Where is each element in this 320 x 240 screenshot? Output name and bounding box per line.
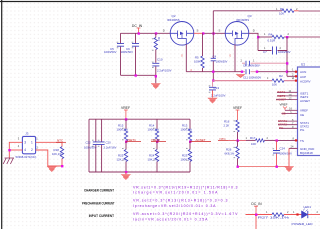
svg-text:ACN: ACN — [300, 70, 306, 74]
capacitor C7 — [258, 50, 287, 52]
resistor R25 — [125, 142, 127, 150]
capacitor C6 — [132, 44, 139, 47]
svg-text:100K,1%: 100K,1% — [181, 158, 193, 162]
svg-text:Icharge=VR.set1/20/0.01= 1.50A: Icharge=VR.set1/20/0.01= 1.50A — [133, 191, 218, 195]
svg-text:C10: C10 — [157, 58, 163, 62]
svg-text:3: 3 — [24, 140, 26, 144]
junction riser / ACDRV — [212, 79, 214, 81]
ground flag C11 (left wing) — [237, 75, 245, 78]
wire divider left edge — [88, 119, 90, 172]
pin 2 ACP stub — [287, 75, 298, 77]
svg-text:ACP: ACP — [300, 75, 306, 79]
wire GND_PAD drop — [288, 148, 290, 166]
svg-text:1: 1 — [31, 140, 33, 144]
junction ISET1 — [125, 141, 127, 143]
wire R5 riser — [202, 33, 204, 56]
svg-text:2.2uF/100V: 2.2uF/100V — [211, 93, 226, 97]
resistor R23 — [189, 142, 191, 150]
junction R18 gnd — [61, 165, 63, 167]
junction ISET2 — [156, 141, 158, 143]
junction J3 left — [8, 149, 10, 151]
svg-text:IRF4905S: IRF4905S — [167, 18, 180, 22]
svg-text:G: G — [181, 55, 183, 58]
svg-text:TS: TS — [300, 139, 304, 143]
wire C8 row — [242, 62, 287, 64]
svg-text:ISET2: ISET2 — [152, 138, 161, 142]
wire R3 to C10 — [155, 50, 157, 63]
svg-text:NTC: NTC — [57, 138, 64, 142]
svg-text:C22: C22 — [86, 141, 92, 145]
svg-text:G: G — [229, 55, 231, 58]
svg-text:100N/50V: 100N/50V — [121, 50, 134, 54]
svg-text:53398-0271(NC): 53398-0271(NC) — [16, 155, 37, 159]
svg-text:100N/50V: 100N/50V — [84, 146, 97, 150]
svg-text:ACSET: ACSET — [300, 99, 310, 103]
capacitor C5 — [117, 44, 124, 47]
svg-text:VREF: VREF — [233, 106, 242, 110]
svg-text:R1: R1 — [280, 7, 284, 11]
wire divider top rail — [89, 118, 190, 120]
junction gnd tap — [125, 171, 127, 173]
svg-text:PRECHARGER CURRENT: PRECHARGER CURRENT — [82, 202, 115, 206]
connector J3 — [22, 136, 35, 153]
svg-text:C13: C13 — [214, 86, 220, 90]
capacitor C8 — [246, 61, 250, 66]
svg-text:VR.set2=0.3*(R13/(R13+R18))*0.: VR.set2=0.3*(R13/(R13+R18))*0.3=0.3 — [133, 199, 228, 203]
svg-text:12K,1%: 12K,1% — [117, 158, 127, 162]
capacitor C10 — [152, 63, 159, 66]
junction ACN riser / C8 — [286, 62, 288, 64]
wire Q3 gate drop — [234, 44, 236, 71]
svg-text:100N/50V: 100N/50V — [104, 50, 117, 54]
transistor Q2 — [170, 22, 194, 46]
svg-text:R27 15K,1%: R27 15K,1% — [258, 215, 290, 219]
wire DC_IN drop — [255, 215, 257, 230]
wire divider bottom rail — [89, 171, 190, 173]
resistor R5 — [201, 56, 204, 68]
wire J3 pin1 NTC — [36, 141, 62, 143]
svg-text:VREF: VREF — [121, 106, 130, 110]
junction LED row — [255, 214, 257, 216]
pin 4 ACDRV stub — [295, 80, 297, 82]
wire C10 to rail — [155, 66, 157, 83]
svg-text:2.2uF/100V: 2.2uF/100V — [157, 69, 172, 73]
wire ACN riser — [286, 37, 288, 76]
junction Q3 drain / R4 — [257, 36, 259, 38]
net label ISET1 — [126, 141, 141, 143]
ground J3 — [47, 167, 56, 172]
wire C6 branch vertical — [135, 33, 137, 75]
svg-text:100K: 100K — [194, 59, 201, 63]
svg-text:CHARGER CURRENT: CHARGER CURRENT — [84, 188, 114, 192]
ground chassis J3 — [3, 158, 14, 164]
svg-text:U1: U1 — [301, 63, 305, 67]
transistor Q3 — [225, 22, 249, 46]
svg-text:C4: C4 — [213, 54, 217, 58]
svg-text:R2: R2 — [279, 74, 283, 78]
pin 8 TS stub — [277, 139, 298, 141]
wire C11 row salmon — [242, 71, 257, 73]
svg-text:0.51R: 0.51R — [268, 38, 276, 42]
junction TS / R16 — [237, 139, 239, 141]
svg-text:J3: J3 — [25, 132, 29, 136]
pin 1 ACN stub — [287, 71, 298, 73]
wire R1 top rail — [213, 10, 282, 12]
svg-text:10K: 10K — [279, 12, 284, 16]
svg-text:POWER_LED: POWER_LED — [292, 222, 314, 226]
svg-text:ACDRV: ACDRV — [300, 79, 310, 83]
wire J3 pin4 — [9, 149, 22, 151]
wire ACDRV riser — [212, 11, 214, 81]
resistor R16 — [236, 120, 239, 132]
svg-text:D: D — [253, 29, 255, 33]
capacitor C24 — [276, 140, 278, 150]
wire R17 to TS pin — [265, 139, 277, 141]
resistor R1 — [282, 9, 294, 12]
resistor R2 — [272, 79, 284, 82]
junction source rail — [202, 32, 204, 34]
wire TS gnd rail — [238, 166, 290, 168]
svg-text:100N/50V: 100N/50V — [278, 50, 291, 54]
svg-text:ACSET: ACSET — [196, 138, 206, 142]
wire ACDRV pink — [213, 80, 297, 82]
resistor R18 — [61, 142, 63, 146]
junction VREF tap — [125, 118, 127, 120]
svg-text:R4: R4 — [269, 33, 273, 37]
junction DC_IN tap — [138, 32, 140, 34]
svg-text:4: 4 — [24, 148, 26, 152]
svg-text:C8 100N/50V: C8 100N/50V — [243, 64, 260, 68]
wire C11 row right — [257, 71, 287, 73]
wire R4 row right to edge — [284, 36, 320, 38]
pin 24 GND_PAD stub — [289, 147, 298, 149]
svg-text:C24: C24 — [280, 147, 286, 151]
svg-text:VR.set1=0.3*(R19/(R19+R12))*(R: VR.set1=0.3*(R19/(R19+R12))*(R11/R18)=0.… — [133, 185, 238, 189]
svg-text:Iacin=VR.acset/20/0.01= 0.25A: Iacin=VR.acset/20/0.01= 0.25A — [133, 217, 208, 221]
capacitor C4 — [211, 58, 216, 61]
resistor R13 — [189, 119, 191, 129]
capacitor C13 — [209, 87, 216, 90]
svg-text:LED1: LED1 — [304, 205, 312, 209]
svg-text:2.2K: 2.2K — [224, 123, 230, 127]
svg-text:100N/50V: 100N/50V — [216, 59, 228, 63]
svg-text:DC_IN: DC_IN — [132, 24, 143, 28]
wire input gnd rail — [121, 74, 156, 76]
svg-text:PG: PG — [300, 128, 305, 132]
svg-text:2: 2 — [31, 148, 33, 152]
svg-text:C7: C7 — [263, 50, 267, 54]
svg-text:S: S — [197, 29, 199, 33]
wire DC_IN top rail — [121, 32, 171, 34]
wire gate net lower rail — [186, 71, 242, 73]
resistor R14 — [156, 119, 158, 129]
svg-text:10K,1%: 10K,1% — [52, 152, 62, 156]
junction TS gnd left — [237, 166, 239, 168]
wire C13 stem — [212, 81, 214, 87]
junction C11 right — [256, 71, 258, 73]
capacitor C20 — [101, 119, 103, 172]
junction C11 left — [241, 71, 243, 73]
resistor R24 — [156, 142, 158, 150]
net label ACSET — [190, 141, 211, 143]
capacitor C11 — [246, 69, 250, 74]
wire LED row left — [246, 214, 273, 216]
resistor R26 — [237, 140, 239, 146]
wire C5 branch vertical — [120, 33, 122, 75]
svg-text:CE: CE — [300, 113, 304, 117]
svg-text:6K8,1%: 6K8,1% — [225, 151, 235, 155]
svg-text:ISET1: ISET1 — [128, 138, 137, 142]
wire TS row — [228, 139, 246, 141]
svg-text:10K: 10K — [272, 83, 277, 87]
svg-text:DC_IN: DC_IN — [251, 202, 262, 206]
wire R27 to LED — [284, 214, 302, 216]
svg-text:D: D — [163, 29, 165, 33]
junction C6 bottom — [135, 74, 137, 76]
resistor R3 — [155, 33, 157, 37]
junction gate rail ACN riser — [286, 71, 288, 73]
junction LED anode — [296, 213, 298, 215]
svg-text:S: S — [219, 29, 221, 33]
sheet border left — [1, 0, 2, 229]
junction TS / C24 — [276, 139, 278, 141]
svg-text:10K,1%: 10K,1% — [148, 158, 158, 162]
junction input gnd — [155, 75, 157, 77]
svg-text:R17: R17 — [250, 136, 256, 140]
junction R3 top — [155, 32, 157, 34]
resistor R4 — [272, 35, 284, 38]
svg-text:R3: R3 — [157, 37, 161, 41]
junction gate rail / riser — [212, 71, 214, 73]
svg-text:Iprecharge=VR.set2/100/0.01= 0: Iprecharge=VR.set2/100/0.01= 0.3A — [133, 204, 216, 208]
junction R4/ACN riser — [286, 36, 288, 38]
pin 16 VREF stub — [285, 109, 298, 111]
svg-text:VR.acset=0.3*(R20/(R20+R14))*3: VR.acset=0.3*(R20/(R20+R14))*3.3V=1.67V — [133, 212, 238, 216]
LED LED1 — [302, 211, 308, 218]
junction source to R1 riser — [212, 32, 214, 34]
svg-text:2.2uF/16V: 2.2uF/16V — [104, 146, 117, 150]
wire J3 pin2 to gnd — [36, 150, 62, 166]
wire Q3 drain — [249, 33, 258, 50]
wire LED to edge — [308, 214, 320, 216]
svg-text:VREF: VREF — [300, 108, 308, 112]
ground input filter — [151, 84, 160, 89]
svg-text:C11 100N/50V: C11 100N/50V — [243, 76, 261, 80]
IC U1 body — [298, 67, 320, 156]
resistor R17 — [256, 139, 265, 142]
wire C13 to gnd — [212, 90, 214, 97]
junction ACSET — [189, 141, 191, 143]
wire Q2 gate drop — [185, 44, 187, 71]
svg-text:INPUT CURRENT: INPUT CURRENT — [89, 214, 114, 218]
wire source rail Q2-Q3 — [194, 32, 203, 34]
resistor R15 — [125, 119, 127, 129]
svg-text:IRF4905S: IRF4905S — [237, 18, 250, 22]
sheet border top — [0, 1, 320, 2]
svg-text:C20: C20 — [106, 141, 112, 145]
ground GND_PAD — [284, 167, 293, 172]
ground C13 — [208, 98, 217, 103]
pin tick marks — [92, 38, 274, 160]
junction TS gnd C24 — [276, 166, 278, 168]
resistor R27 — [272, 213, 284, 216]
wire R1 to edge — [294, 10, 299, 12]
svg-text:100N/50V: 100N/50V — [280, 152, 293, 156]
svg-text:VREF: VREF — [280, 103, 288, 107]
power flag stem DC_IN — [137, 28, 141, 33]
net label ISET2 — [151, 141, 166, 143]
wire R4 row left — [258, 36, 272, 38]
ground divider — [125, 172, 127, 175]
svg-text:BQ24618: BQ24618 — [300, 151, 313, 155]
capacitor C22 — [95, 119, 97, 172]
svg-text:10K: 10K — [251, 142, 256, 146]
wire J3 pin3 — [9, 142, 22, 158]
